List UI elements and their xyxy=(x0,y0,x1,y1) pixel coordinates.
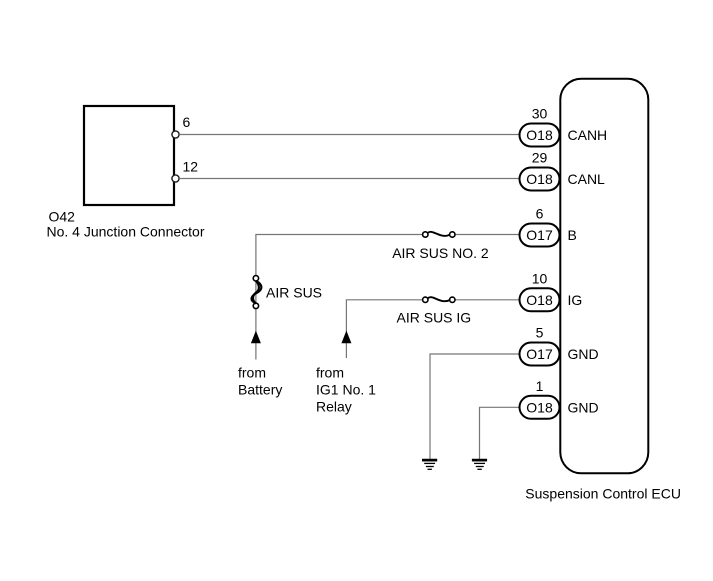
pin 5 connector pill O17 xyxy=(520,325,560,366)
svg-text:6: 6 xyxy=(536,206,544,222)
wire CANL xyxy=(179,178,520,180)
fusible link AIR SUS bottom circle xyxy=(253,303,258,308)
svg-text:CANH: CANH xyxy=(568,127,608,143)
svg-text:GND: GND xyxy=(568,346,599,362)
svg-text:AIR SUS: AIR SUS xyxy=(266,285,322,301)
wire GND pin 5 xyxy=(430,354,520,459)
svg-text:Battery: Battery xyxy=(238,382,282,398)
ECU body Suspension Control ECU xyxy=(560,79,648,474)
svg-text:GND: GND xyxy=(568,399,599,415)
svg-text:1: 1 xyxy=(536,378,544,394)
svg-text:12: 12 xyxy=(183,159,199,175)
svg-text:Relay: Relay xyxy=(316,399,352,415)
pin 30 connector pill O18 xyxy=(520,106,560,147)
fuse AIR SUS NO. 2 right circle xyxy=(450,232,455,237)
svg-text:5: 5 xyxy=(536,325,544,341)
fuse AIR SUS NO. 2 element curve xyxy=(428,232,450,236)
pin 6 connector pill O17 xyxy=(520,206,560,247)
ground symbol right xyxy=(472,460,487,469)
svg-text:O17: O17 xyxy=(526,227,553,243)
svg-text:Suspension Control ECU: Suspension Control ECU xyxy=(525,486,681,502)
svg-text:10: 10 xyxy=(532,270,548,286)
svg-text:29: 29 xyxy=(532,150,548,166)
svg-text:B: B xyxy=(568,227,577,243)
fusible link AIR SUS top circle xyxy=(253,276,258,281)
svg-text:IG: IG xyxy=(568,292,583,308)
pin 1 connector pill O18 xyxy=(520,378,560,419)
svg-text:from: from xyxy=(316,365,344,381)
pin 29 connector pill O18 xyxy=(520,150,560,191)
svg-text:IG1 No. 1: IG1 No. 1 xyxy=(316,382,376,398)
junction connector O42 body xyxy=(84,106,174,205)
svg-text:O42: O42 xyxy=(49,209,76,225)
O42 pin 6 terminal circle xyxy=(172,131,179,138)
pin 10 connector pill O18 xyxy=(520,270,560,311)
fuse AIR SUS IG right circle xyxy=(450,297,455,302)
fusible link AIR SUS element xyxy=(252,281,262,304)
wire IG horizontal right segment xyxy=(455,299,520,301)
fuse AIR SUS IG left circle xyxy=(423,297,428,302)
arrow from Battery xyxy=(251,331,261,344)
arrow from IG1 No. 1 Relay xyxy=(341,331,351,344)
svg-text:30: 30 xyxy=(532,106,548,122)
wire CANH xyxy=(179,134,520,136)
wire B horizontal left segment xyxy=(256,235,423,360)
fuse AIR SUS IG element curve xyxy=(428,297,450,301)
wire IG vertical+horizontal left segment xyxy=(346,300,422,358)
wire B horizontal right segment xyxy=(455,234,520,236)
fuse AIR SUS NO. 2 left circle xyxy=(423,232,428,237)
svg-text:No. 4 Junction Connector: No. 4 Junction Connector xyxy=(47,224,205,240)
O42 pin 12 terminal circle xyxy=(172,175,179,182)
svg-text:O18: O18 xyxy=(526,399,553,415)
wire GND pin 1 xyxy=(480,407,521,459)
svg-text:O18: O18 xyxy=(526,127,553,143)
svg-text:AIR SUS NO. 2: AIR SUS NO. 2 xyxy=(392,245,489,261)
svg-text:CANL: CANL xyxy=(568,171,606,187)
ground symbol left xyxy=(422,460,437,469)
svg-text:O18: O18 xyxy=(526,171,553,187)
svg-text:6: 6 xyxy=(183,114,191,130)
svg-text:O17: O17 xyxy=(526,346,553,362)
svg-text:O18: O18 xyxy=(526,292,553,308)
svg-text:from: from xyxy=(238,365,266,381)
svg-text:AIR SUS IG: AIR SUS IG xyxy=(397,309,472,325)
